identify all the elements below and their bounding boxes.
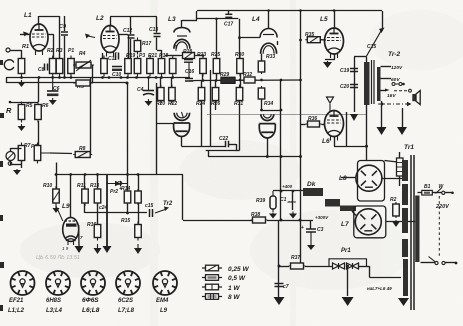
wire R11 up	[84, 175, 86, 190]
ground R10	[53, 206, 60, 213]
wire L3 stem	[181, 137, 183, 147]
L4 grid dash	[263, 34, 274, 36]
loudspeaker	[412, 91, 420, 105]
scan mark edge 4	[0, 215, 3, 221]
resistor R25	[213, 56, 220, 77]
choke winding 3	[340, 206, 356, 212]
ground R16	[94, 244, 102, 254]
junction top bus x300	[299, 9, 302, 12]
resistor R9	[73, 80, 93, 86]
scan mark edge 3	[0, 161, 3, 167]
capacitor C6	[47, 78, 58, 97]
junction x127 y83	[126, 82, 129, 85]
wire Tr2 top	[354, 56, 366, 58]
wire eye to ground	[78, 225, 80, 246]
resistor R28	[181, 53, 197, 59]
socket 6C2S	[116, 271, 140, 295]
resistor R37	[289, 263, 306, 269]
socket 6F6S	[81, 271, 105, 295]
junction bus x109	[108, 76, 111, 79]
junction 267/156	[266, 155, 269, 158]
wire x56 stub	[56, 163, 58, 175]
junction x300 rail	[299, 79, 302, 82]
resistor R16	[94, 222, 101, 241]
wire into primary	[366, 57, 368, 62]
wire C13 top lead	[156, 17, 158, 33]
junction rail e	[280, 79, 283, 82]
wire arch to R33	[261, 54, 263, 61]
junction rail d	[260, 79, 263, 82]
wire choke to L7	[352, 211, 356, 216]
dashed mains	[438, 196, 440, 258]
junction top bus L5	[333, 9, 336, 12]
stub C22	[236, 144, 238, 151]
resistor R7	[18, 143, 25, 164]
wire R25 up	[216, 19, 218, 59]
junction bus x21.5	[20, 76, 23, 79]
capacitor C17	[225, 14, 232, 17]
triode L3 anode dome	[174, 28, 190, 33]
arrow ground Tr2 sec	[377, 127, 387, 135]
arrow ground L9	[75, 246, 84, 253]
wire Tr2 primary to L8	[366, 105, 368, 161]
junction 281/220	[280, 219, 283, 222]
junction 300/156	[299, 155, 302, 158]
loop antenna	[4, 60, 13, 70]
wire R22 top stub	[171, 78, 173, 88]
resistor R14b	[135, 189, 142, 205]
resistor R18	[147, 56, 154, 77]
junction dash line	[381, 103, 384, 106]
wire y220	[183, 220, 266, 222]
resistor R40 vertical	[397, 158, 404, 176]
potentiometer P1	[68, 56, 75, 77]
choke winding 2	[325, 199, 340, 207]
wire L4 right stub	[277, 41, 279, 45]
fuse B1	[422, 190, 433, 195]
wire bus y156	[208, 156, 301, 158]
junction bus x59.5	[58, 76, 61, 79]
wire R10 up	[56, 175, 58, 190]
wire y213	[85, 212, 128, 214]
junction rail a	[202, 79, 205, 82]
junction bus x172.7	[171, 76, 174, 79]
wire to c15	[128, 212, 148, 214]
wire L8 right	[382, 178, 402, 180]
wire R26 down	[215, 101, 217, 111]
stub R25 bottom	[216, 74, 218, 81]
wire C1 lead	[292, 191, 294, 210]
Tr1 winding seg1	[402, 160, 408, 181]
wire pot bottom	[10, 161, 12, 166]
wire tap 60V	[381, 78, 392, 80]
junction bus x156	[155, 76, 158, 79]
capacitor C20	[350, 85, 358, 88]
arrow ground Tr2 left	[350, 114, 358, 121]
wire R14 to R15	[138, 203, 140, 225]
ground R15	[134, 244, 142, 254]
wire rail left	[189, 80, 196, 83]
wire C12 top lead	[130, 17, 132, 34]
wire	[53, 35, 55, 59]
Tr2 core	[371, 60, 373, 104]
ground L5	[323, 61, 332, 68]
ground C1	[289, 212, 297, 219]
capacitor C8	[45, 64, 48, 71]
wire drop to L5 top	[334, 11, 336, 28]
junction 127/174	[126, 173, 129, 176]
wire R31 down	[239, 101, 241, 151]
junction bus x52.7	[51, 76, 54, 79]
wire R14a down	[127, 203, 129, 213]
wire tap 120V	[381, 66, 392, 68]
wire bus left join	[6, 78, 8, 84]
wire R37 to Pr1	[305, 266, 333, 268]
wire W right	[445, 192, 453, 194]
wire B1 left stub	[418, 192, 422, 194]
diode D2	[339, 263, 345, 269]
wire x91 vertical	[90, 78, 92, 155]
junction R35 left	[299, 39, 302, 42]
Tr1 secondary winding	[415, 196, 419, 263]
wire sec bottom down	[381, 101, 383, 127]
wire L7 right	[386, 221, 415, 223]
switch lower	[429, 257, 446, 265]
wire tap 16V	[381, 90, 387, 92]
resistor R15	[135, 222, 142, 241]
Tr1 winding seg5	[403, 259, 408, 296]
magic eye tube L9	[63, 217, 79, 245]
scan mark edge 1	[0, 60, 3, 65]
scan mark edge 2	[0, 113, 4, 118]
wire R28 left	[165, 55, 181, 57]
faint line y114	[207, 114, 366, 116]
capacitor C12	[128, 35, 135, 38]
resistor R13	[94, 186, 101, 206]
resistor R24	[198, 85, 205, 104]
wire main bus y77	[6, 77, 190, 79]
socket EM4	[153, 271, 177, 295]
wire R6 down	[38, 121, 40, 147]
wire L1 anode link	[39, 16, 60, 18]
legend 8W symbol	[202, 294, 222, 300]
wire R24 top stub	[201, 81, 203, 88]
wire y146 drop	[225, 145, 227, 147]
electrolytic c24 line	[106, 175, 108, 246]
resistor R29	[219, 77, 237, 83]
wire L4 stem	[267, 138, 269, 157]
grid cap arrow L1	[23, 32, 31, 37]
wire R13 to R16	[97, 203, 99, 225]
junction R34 y110	[260, 109, 263, 112]
L3 cathode cup	[174, 113, 189, 121]
tone potentiometer	[6, 152, 15, 161]
wire x183 vertical	[182, 175, 184, 221]
wire pot top	[10, 148, 12, 152]
junction bus x161.5	[160, 76, 163, 79]
junction 203/55	[202, 54, 205, 57]
junction 56/174	[55, 173, 58, 176]
resistor R26	[212, 85, 219, 104]
legend 0.5W symbol	[202, 275, 222, 281]
resistor R38	[251, 217, 268, 223]
ground C6	[49, 98, 57, 105]
junction 239/37	[238, 36, 241, 39]
junction rail b	[215, 79, 218, 82]
capacitor c15	[150, 209, 153, 217]
wire L8 box to Tr1	[385, 161, 403, 163]
wire R35 to L5	[321, 39, 327, 41]
ground C3	[307, 243, 315, 250]
wire C3 top	[310, 220, 312, 229]
IF pentode L2	[101, 26, 119, 57]
wire L2 to P3	[119, 34, 128, 36]
diode D4	[353, 263, 359, 269]
wire B1 to W	[432, 192, 441, 194]
junction 281/156	[280, 155, 283, 158]
ground R5	[18, 124, 26, 131]
R4 wiper arrow	[76, 60, 91, 71]
wire to +300V	[267, 220, 313, 222]
junction bus x39	[38, 76, 41, 79]
wire R4 right down	[92, 65, 94, 83]
resistor R35	[305, 37, 322, 43]
wire top bus	[197, 10, 382, 12]
wire x210 vertical	[210, 70, 212, 146]
junction bus x71	[70, 76, 73, 79]
wire choke to L8	[341, 177, 356, 179]
wire into L3b	[156, 123, 174, 125]
wire	[128, 35, 130, 59]
junction bus x148.5	[147, 76, 150, 79]
wire x279 down	[278, 220, 280, 297]
wire R36 right	[322, 124, 325, 126]
junction bus x64.5	[63, 76, 66, 79]
wire x281 segment	[280, 191, 282, 220]
wire	[110, 17, 112, 26]
junction Pr1	[346, 265, 349, 268]
L4 cathode cup	[261, 114, 274, 121]
resistor R5	[18, 102, 25, 123]
scan mark edge 6	[0, 305, 3, 311]
resistor R39	[270, 191, 276, 212]
junction	[9, 101, 12, 104]
wire drop to R35	[300, 11, 302, 40]
choke Dk winding	[303, 188, 323, 196]
output tube L7	[355, 209, 381, 235]
wire x239 vertical	[239, 19, 241, 59]
capacitor C22	[226, 141, 229, 148]
Tr2 secondary winding	[377, 67, 381, 101]
output tube L8	[356, 165, 382, 191]
junction W right	[451, 192, 454, 195]
resistor R3	[56, 56, 63, 77]
wire	[21, 161, 23, 169]
wire C17 bottom stub	[228, 18, 230, 19]
legend 0.25W symbol	[202, 265, 222, 271]
wire vertical x300	[300, 40, 302, 266]
resistor R2	[393, 202, 400, 218]
switch W	[436, 188, 445, 194]
wire C9 top lead	[64, 16, 66, 31]
dash-dot line y104	[378, 103, 408, 105]
wire R28 to R23	[197, 55, 204, 57]
resistor R27	[158, 56, 165, 77]
diode D1	[333, 263, 339, 269]
wire R20 top stub	[160, 78, 162, 88]
potentiometer P2	[34, 143, 41, 164]
wire R6 up	[38, 78, 40, 103]
wire R36 left	[301, 124, 306, 126]
resistor R19	[101, 56, 108, 77]
wire gnd stub right	[402, 108, 404, 127]
potentiometer R4	[73, 62, 94, 68]
wire C13 to R27	[157, 50, 162, 52]
wire R37 left	[279, 266, 289, 268]
L3 grid arch	[174, 39, 190, 48]
wire C11 stub	[116, 52, 118, 55]
wire Pr1 down	[347, 271, 349, 296]
resistor R23	[200, 56, 207, 77]
Tr2 primary winding	[364, 62, 370, 105]
arrow ground right	[397, 127, 407, 135]
wire R24 down	[201, 101, 203, 147]
wire join to bus156	[208, 150, 210, 157]
capacitor C16	[185, 62, 193, 81]
wire to R3 top	[59, 16, 61, 59]
diode D3	[347, 263, 353, 269]
L3 grid dash	[177, 35, 187, 37]
wire bus y174	[56, 174, 183, 176]
arrow ground Pr1	[342, 297, 354, 306]
wire R14b up	[138, 175, 140, 192]
wire L6 to L8 anode	[334, 146, 367, 148]
wire C13 down	[156, 38, 158, 51]
ground R2	[393, 220, 400, 227]
L5 bottom bar	[325, 59, 335, 61]
junction 138/174	[137, 173, 140, 176]
wire L2 pin to R19	[102, 53, 104, 59]
L8 anode box	[358, 161, 385, 202]
arrow ground c24	[103, 246, 112, 253]
wire R31 top stub	[240, 80, 242, 88]
resistor R36	[306, 121, 322, 127]
junction bus x102.5	[101, 76, 104, 79]
junction 97/174	[96, 173, 99, 176]
resistor R17	[134, 38, 141, 55]
stub R23 bottom	[202, 74, 204, 81]
scan mark edge 5	[0, 262, 4, 268]
wire x127 vertical	[127, 83, 129, 191]
shield arrow L6	[327, 97, 334, 111]
junction 216/18	[215, 18, 218, 21]
junction C1 top	[292, 190, 295, 193]
wire R13 up	[97, 175, 99, 190]
junction 281/191	[280, 190, 283, 193]
wire C22 right	[229, 144, 236, 146]
wire L6 bottom down	[334, 136, 336, 146]
junction right edge	[455, 262, 458, 265]
wire L2 anode link	[110, 16, 131, 18]
wire B+ vertical x281	[280, 80, 282, 191]
socket 6N8S	[46, 271, 70, 295]
wire bus2 left	[6, 82, 76, 84]
wire B+ rail	[196, 79, 301, 82]
Tr1 core	[410, 155, 412, 310]
ground C4	[145, 99, 153, 106]
legend 1W symbol	[202, 284, 222, 290]
P2 wiper	[41, 152, 50, 154]
Tr1 winding seg4	[402, 239, 408, 257]
wire R10 to eye	[56, 206, 63, 221]
junction x281 y110	[280, 109, 283, 112]
arrow ground c7	[274, 297, 285, 305]
junction rail c	[239, 79, 242, 82]
wire y150	[206, 150, 236, 152]
junction 85/174	[84, 173, 87, 176]
wire R40 up	[399, 152, 401, 158]
variable C15 arrow	[366, 28, 385, 58]
wire L5 bottom	[334, 54, 336, 59]
wire Pr1 down stub	[347, 266, 349, 271]
wire eye top lead	[70, 175, 72, 218]
capacitor C9	[61, 32, 68, 35]
junction 70/174	[69, 173, 72, 176]
wire R11 down	[84, 203, 86, 213]
resistor R30	[237, 56, 244, 77]
tap terminals	[392, 83, 395, 86]
socket EF21	[11, 271, 35, 295]
wire Tr2 left vertical	[354, 57, 356, 112]
L4 lower envelope	[259, 124, 275, 138]
wire y18 link	[197, 18, 238, 20]
capacitor C10	[112, 67, 122, 72]
L3 cup arrow	[182, 112, 184, 118]
resistor R10	[53, 186, 60, 206]
capacitor C3	[301, 225, 316, 243]
resistor R1	[18, 56, 25, 77]
resistor R6	[35, 102, 42, 123]
wire drop right end	[382, 11, 384, 29]
detector tube L6	[325, 111, 344, 141]
wire L1 to R2	[48, 34, 54, 36]
wire x346 vertical	[346, 112, 348, 146]
junction 300/220	[299, 219, 302, 222]
output pentode L5	[325, 28, 344, 58]
resistor R11	[82, 186, 89, 206]
resistor R2	[49, 56, 56, 77]
arrow Tr1 bottom	[398, 298, 409, 306]
phono terminal	[8, 162, 12, 166]
wire drop to L4 cap	[268, 11, 270, 29]
wire y110	[262, 110, 282, 112]
speaker terminal	[409, 89, 412, 92]
diode Pr2	[107, 181, 128, 186]
capacitor C13	[154, 34, 161, 37]
resistor R14a	[124, 189, 131, 205]
wire C12 down	[130, 39, 132, 59]
wire R8 right	[89, 154, 92, 156]
wire R34 down	[261, 99, 263, 110]
stub R30 bottom	[240, 74, 242, 81]
resistor R22a	[169, 56, 176, 77]
wire Pr1 to Tr1	[370, 277, 402, 279]
resistor R34	[258, 86, 265, 101]
ground pot	[13, 169, 21, 175]
wire	[11, 148, 22, 150]
wire y146	[181, 146, 225, 148]
stub R31 join	[236, 150, 240, 152]
